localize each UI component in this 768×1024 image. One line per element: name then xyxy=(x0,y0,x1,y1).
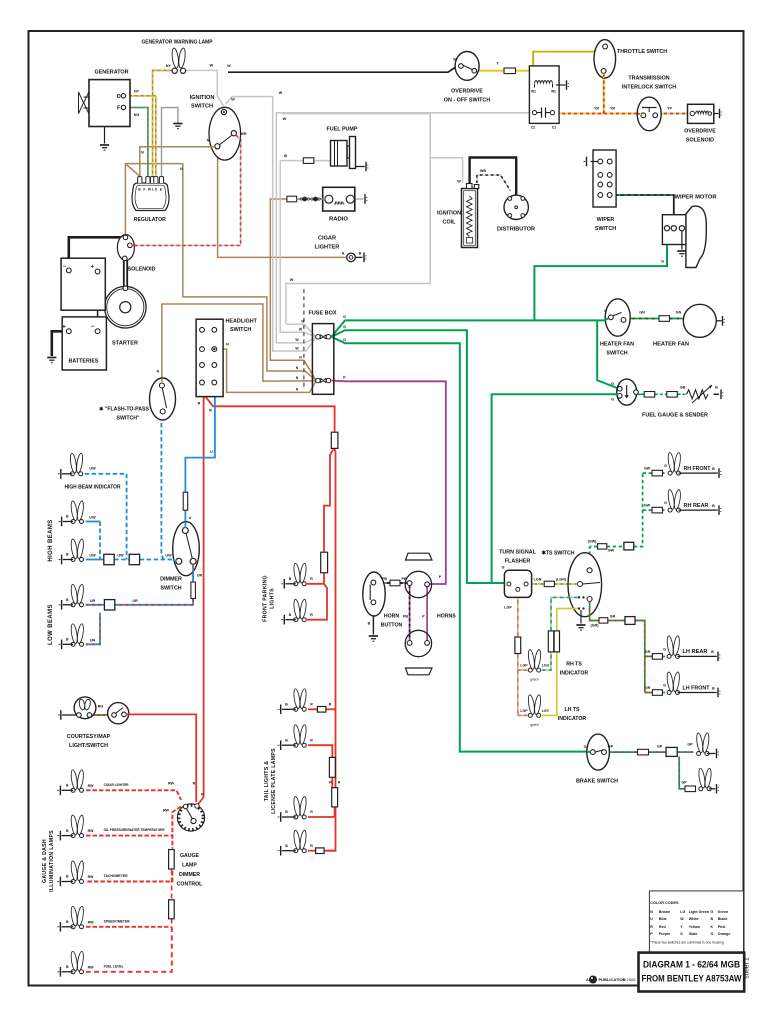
label STARTER xyxy=(112,341,138,347)
label WIPER MOTOR xyxy=(675,195,717,201)
label R R tail fuses xyxy=(329,781,341,785)
label W coil loop xyxy=(283,117,287,121)
LH rear lamp xyxy=(666,636,680,659)
wire E regulator to ground xyxy=(162,108,178,177)
label OVERDRIVE SOLENOID xyxy=(684,129,716,144)
label GW GR labels xyxy=(588,540,616,628)
label UR lb2 xyxy=(90,638,96,642)
svg-text:REGULATOR: REGULATOR xyxy=(134,217,166,223)
svg-text:GAUGE: GAUGE xyxy=(180,853,200,859)
svg-text:(GW): (GW) xyxy=(588,540,598,544)
connector heater fan xyxy=(723,316,725,326)
label HEATER FAN SWITCH xyxy=(600,342,634,357)
high beam lamp 3 xyxy=(70,539,84,562)
svg-text:G: G xyxy=(663,684,666,688)
svg-text:White: White xyxy=(689,917,699,921)
bulkhead dashed line xyxy=(303,289,305,388)
wire G branch heater line to fuel gauge xyxy=(597,320,618,388)
svg-text:R: R xyxy=(193,782,196,786)
cigar lighter top xyxy=(347,253,363,262)
label B row xyxy=(66,784,69,788)
svg-text:W: W xyxy=(210,64,214,68)
svg-text:© 2005: © 2005 xyxy=(623,977,637,982)
svg-text:PB: PB xyxy=(382,577,387,581)
label RH FRONT xyxy=(684,466,711,472)
RH rear lamp xyxy=(667,489,681,512)
svg-text:HORN: HORN xyxy=(384,614,400,620)
label NG xyxy=(134,113,140,117)
svg-text:Green: Green xyxy=(718,910,728,914)
wire B LH front xyxy=(678,688,721,698)
wire N ignition-to-cigar-lighter xyxy=(218,158,347,257)
label SOLENOID xyxy=(128,267,156,273)
wire UR low beam 2 drop xyxy=(86,613,100,645)
label W coil xyxy=(457,180,461,184)
svg-text:R: R xyxy=(198,402,201,406)
svg-text:B F WLD E: B F WLD E xyxy=(138,188,162,192)
overdrive solenoid xyxy=(688,104,719,123)
svg-text:R: R xyxy=(209,409,212,413)
fuel pump xyxy=(331,137,356,169)
label GAUGE & DASH ILLUMINATION LAMPS rotated xyxy=(42,830,55,892)
ground generator xyxy=(100,145,109,150)
wire N flash-to-pass feed xyxy=(162,304,316,382)
fuse LGN xyxy=(544,581,554,586)
label row title xyxy=(104,783,129,787)
cable battery link xyxy=(97,274,99,329)
fuse GR LH rear xyxy=(652,654,662,660)
label U headlight xyxy=(189,450,214,520)
brake switch xyxy=(587,734,610,770)
low beam lamp 2 xyxy=(70,623,84,646)
svg-text:TRANSMISSION: TRANSMISSION xyxy=(628,76,669,82)
fuse Y overdrive xyxy=(504,68,516,74)
fuse upper xyxy=(316,335,331,340)
brake lamp upper xyxy=(696,733,710,756)
svg-text:COLOR CODES: COLOR CODES xyxy=(650,901,679,905)
label B tail xyxy=(285,703,288,707)
label B tail xyxy=(285,810,288,814)
svg-text:FUEL GAUGE & SENDER: FUEL GAUGE & SENDER xyxy=(642,413,708,419)
generator warning lamp xyxy=(171,48,186,74)
wire G overlay into brake switch xyxy=(588,751,591,754)
connector wiper switch xyxy=(584,157,598,167)
label GW G B rh front xyxy=(644,464,715,471)
label RW row xyxy=(88,875,94,879)
svg-text:GR: GR xyxy=(610,615,616,619)
connector relay W2 xyxy=(556,80,569,90)
svg-text:−: − xyxy=(91,324,95,330)
label R fp1 xyxy=(310,577,313,581)
fuse U dimmer feed xyxy=(183,492,188,510)
label N headlight xyxy=(226,343,229,347)
high beam lamp 2 xyxy=(70,501,84,524)
svg-text:LIGHTS: LIGHTS xyxy=(270,588,276,609)
wire UR dimmer to low beams xyxy=(115,564,193,605)
svg-text:LGU: LGU xyxy=(542,664,550,668)
svg-text:G: G xyxy=(584,745,587,749)
svg-text:R: R xyxy=(310,577,313,581)
label row title xyxy=(104,828,165,832)
label IGNITION SWITCH xyxy=(190,95,215,110)
ground battery xyxy=(47,358,56,363)
wire PB horn1 to horn2 xyxy=(409,586,411,641)
svg-text:HEATER FAN: HEATER FAN xyxy=(653,342,689,348)
svg-text:LH REAR: LH REAR xyxy=(683,649,708,655)
label HORNS xyxy=(437,614,456,620)
svg-text:OIL PRESSURE/WATER TEMPERATURE: OIL PRESSURE/WATER TEMPERATURE xyxy=(104,828,165,832)
svg-text:GAUGE & DASH: GAUGE & DASH xyxy=(42,839,48,883)
svg-text:FLASHER: FLASHER xyxy=(505,559,531,565)
svg-text:B: B xyxy=(368,622,371,626)
svg-text:LGY: LGY xyxy=(542,709,550,713)
label B lamp xyxy=(66,598,69,602)
svg-text:HIGH BEAMS: HIGH BEAMS xyxy=(48,519,54,561)
svg-text:W: W xyxy=(283,117,287,121)
svg-text:W: W xyxy=(680,917,684,921)
wire W warning lamp to ignition switch xyxy=(185,70,224,106)
fuse LGY xyxy=(554,631,559,652)
svg-text:N: N xyxy=(180,167,183,171)
wire B horn button ground xyxy=(372,605,374,635)
wire W radio right lead xyxy=(355,198,364,200)
wire UR overlay from dimmer xyxy=(192,564,194,577)
publication credit xyxy=(586,976,636,984)
label B lamp xyxy=(289,577,292,581)
label LGP xyxy=(504,606,512,610)
svg-text:GENERATOR: GENERATOR xyxy=(95,70,129,76)
svg-text:C2: C2 xyxy=(531,126,535,130)
svg-text:YR: YR xyxy=(594,107,599,111)
svg-text:GP: GP xyxy=(608,745,614,749)
svg-text:FUEL LEVEL: FUEL LEVEL xyxy=(104,964,125,968)
label BRAKE SWITCH xyxy=(576,779,618,785)
tail lamp row xyxy=(293,688,307,711)
wire W overdrive relay C2 feed xyxy=(276,113,529,343)
svg-text:sheet 1: sheet 1 xyxy=(744,957,751,979)
fuse GB 1 xyxy=(644,392,655,398)
wire GW TS switch to RH lamps xyxy=(590,473,643,567)
svg-text:UW: UW xyxy=(89,554,96,558)
svg-text:W: W xyxy=(279,91,283,95)
illumination lamp row xyxy=(70,861,84,884)
label B row xyxy=(66,829,69,833)
svg-text:W: W xyxy=(290,278,294,282)
connector lamp xyxy=(59,640,74,650)
label R headlight xyxy=(198,402,213,413)
label W lamp xyxy=(210,64,214,68)
fuse GR xyxy=(599,618,608,623)
svg-text:green: green xyxy=(530,723,539,727)
svg-text:GP: GP xyxy=(657,745,663,749)
svg-text:RW: RW xyxy=(88,965,94,969)
svg-text:N: N xyxy=(650,910,653,914)
label LH REAR xyxy=(683,649,708,655)
label row title xyxy=(104,919,130,923)
svg-text:SWITCH: SWITCH xyxy=(595,226,616,232)
label W ignition acc xyxy=(231,98,235,102)
connector tail row xyxy=(278,812,296,822)
svg-text:GN: GN xyxy=(639,311,645,315)
svg-text:O: O xyxy=(711,932,714,936)
fuse lower xyxy=(316,378,331,383)
svg-text:N: N xyxy=(342,251,345,255)
wire R tail row4 xyxy=(308,850,336,852)
svg-text:SOLENOID: SOLENOID xyxy=(128,267,156,273)
wire YP interlock to OD solenoid xyxy=(658,113,689,115)
svg-text:C1: C1 xyxy=(552,126,556,130)
label GENERATOR WARNING LAMP xyxy=(142,40,213,46)
wire UR low beam 1 xyxy=(86,604,105,606)
svg-text:(GR): (GR) xyxy=(591,624,600,628)
wire HT coil to distributor xyxy=(470,158,517,204)
label YR labels xyxy=(594,107,615,111)
svg-text:D: D xyxy=(117,94,121,100)
fuse R parking xyxy=(321,552,328,573)
wire UW flash-to-pass drop xyxy=(161,416,163,560)
svg-text:G: G xyxy=(502,566,505,570)
flash-to-pass switch xyxy=(150,378,176,420)
wire GB fuel gauge to sender xyxy=(638,393,719,395)
ground TS switch xyxy=(576,625,585,630)
fuse GP lower xyxy=(685,786,696,792)
label UW hb3 xyxy=(89,554,172,558)
wire R front parking branch xyxy=(307,449,334,620)
wire GN heater switch to heater fan xyxy=(626,318,684,320)
svg-text:SWITCH: SWITCH xyxy=(230,327,251,333)
svg-text:RH FRONT: RH FRONT xyxy=(684,466,711,472)
wire GP lower brake lamp xyxy=(679,757,696,789)
label UR lb1 xyxy=(90,599,138,603)
label LGP LGU rh xyxy=(520,664,549,682)
connector GW xyxy=(624,542,634,550)
svg-text:GW: GW xyxy=(644,467,651,471)
wire UW high beam 2 drop xyxy=(86,522,100,560)
connector sender xyxy=(721,390,723,400)
courtesy map light xyxy=(74,697,96,719)
label G GP brake xyxy=(584,743,694,785)
wire RW fuel level row xyxy=(86,927,172,972)
label DISTRIBUTOR xyxy=(497,227,535,233)
svg-text:G: G xyxy=(711,910,714,914)
svg-text:R: R xyxy=(201,793,204,797)
svg-text:GW: GW xyxy=(608,549,615,553)
label DIMMER SWITCH xyxy=(160,577,182,592)
fuse RW lower xyxy=(169,900,175,919)
label FUEL PUMP xyxy=(327,127,358,133)
starter xyxy=(105,286,147,328)
label COURTESY/MAP LIGHT/SWITCH xyxy=(67,734,111,749)
label R tail xyxy=(310,810,313,814)
connector lamp xyxy=(281,615,296,625)
wire B LH rear xyxy=(678,652,721,662)
label NY xyxy=(134,89,140,93)
svg-text:SWITCH": SWITCH" xyxy=(117,416,140,422)
label CIGAR LIGHTER xyxy=(315,236,340,251)
fuse UR xyxy=(191,582,196,599)
fuse N radio xyxy=(287,196,297,202)
wire GR overlay from TS switch bottom xyxy=(589,602,591,618)
connector square UW1 xyxy=(104,554,114,564)
fuse LGU xyxy=(548,631,553,652)
dots TS switch overlay xyxy=(578,596,585,609)
cable solenoid to starter xyxy=(124,259,127,287)
horn 1 xyxy=(405,553,432,598)
label GR G B lh front xyxy=(645,684,715,691)
wire LGU overlay into TS switch dots xyxy=(567,596,578,598)
svg-text:GR: GR xyxy=(645,686,651,690)
wire UW overlay into dimmer xyxy=(173,559,176,562)
illumination lamp row xyxy=(70,951,84,974)
svg-text:IGNITION: IGNITION xyxy=(190,95,215,101)
wire B RH front xyxy=(679,468,722,478)
wire YR overlay into throttle switch xyxy=(603,74,605,79)
wire WB coil to distributor xyxy=(477,175,510,191)
svg-text:N: N xyxy=(226,343,229,347)
wire GP brake switch to lamps xyxy=(608,751,694,753)
label GENERATOR xyxy=(95,70,129,76)
wire U headlight switch to dimmer xyxy=(185,385,215,528)
label W overdrive feed xyxy=(227,64,231,68)
svg-text:GB: GB xyxy=(680,386,686,390)
label W od switch xyxy=(453,58,457,62)
illumination lamp row xyxy=(70,906,84,929)
wire LGN flasher to TS switch xyxy=(529,583,578,585)
svg-text:RW: RW xyxy=(88,875,94,879)
connector square UR xyxy=(104,600,114,610)
svg-text:LAMP: LAMP xyxy=(182,863,197,869)
fuse LGP xyxy=(515,637,521,654)
label PB labels xyxy=(382,575,442,619)
connector tail row xyxy=(278,705,296,715)
label YP xyxy=(667,107,672,111)
solenoid xyxy=(117,235,134,261)
wire LGY overlay into TS switch dots xyxy=(567,608,578,610)
wire LGP RH TS branch xyxy=(518,669,528,671)
svg-text:IGNITION: IGNITION xyxy=(437,211,461,217)
svg-text:ON - OFF SWITCH: ON - OFF SWITCH xyxy=(444,98,491,104)
label B sender xyxy=(715,386,718,390)
svg-text:LICENSE PLATE LAMPS: LICENSE PLATE LAMPS xyxy=(271,748,277,814)
label WB xyxy=(480,169,486,173)
wire WR overlay into solenoid xyxy=(132,244,135,246)
svg-text:FRONT PARKING: FRONT PARKING xyxy=(263,575,269,622)
label HIGH BEAM INDICATOR xyxy=(65,485,121,491)
svg-text:G: G xyxy=(664,464,667,468)
svg-text:RW: RW xyxy=(88,920,94,924)
svg-text:RW: RW xyxy=(88,829,94,833)
wire N radio feed xyxy=(270,199,316,380)
label HIGH BEAMS rotated xyxy=(48,519,54,561)
connector high beam indicator xyxy=(58,469,73,479)
wire R tail row2 chain xyxy=(308,745,335,817)
resistor fuel sender xyxy=(687,385,713,403)
svg-text:TAIL LIGHTS &: TAIL LIGHTS & xyxy=(264,761,270,802)
label HORN BUTTON xyxy=(381,614,403,629)
connector tail row xyxy=(278,846,296,856)
svg-text:UR: UR xyxy=(90,599,96,603)
svg-text:RW: RW xyxy=(163,809,170,813)
wire GR LH front row xyxy=(645,692,665,694)
fuse R tail B xyxy=(332,788,338,807)
title block xyxy=(639,953,745,992)
connector radio right xyxy=(365,194,367,204)
wire NY generator D to regulator xyxy=(126,96,156,177)
svg-text:U: U xyxy=(210,450,213,454)
svg-text:G: G xyxy=(664,501,667,505)
label G heater xyxy=(604,309,607,313)
label UW hb2 xyxy=(89,516,96,520)
label B row xyxy=(66,965,69,969)
svg-text:DISTRIBUTOR: DISTRIBUTOR xyxy=(497,227,535,233)
wire U overlay into dimmer top xyxy=(184,522,186,528)
svg-text:SWITCH: SWITCH xyxy=(606,351,627,357)
wire W ignition coil loop xyxy=(282,114,463,337)
svg-text:R: R xyxy=(310,613,313,617)
svg-text:ILLUMINATION LAMPS: ILLUMINATION LAMPS xyxy=(49,830,55,892)
svg-text:GENERATOR WARNING LAMP: GENERATOR WARNING LAMP xyxy=(142,40,213,46)
radio xyxy=(323,187,355,211)
connector row xyxy=(57,922,73,932)
wire WR ignition to solenoid xyxy=(132,134,240,245)
label WIPER SWITCH xyxy=(595,217,616,232)
svg-text:LG: LG xyxy=(680,910,685,914)
wire LGU RH TS to switch xyxy=(542,597,578,670)
label G flasher xyxy=(502,566,505,570)
svg-text:SWITCH: SWITCH xyxy=(191,104,213,110)
ignition coil xyxy=(462,184,479,248)
heater fan switch xyxy=(605,299,630,336)
wire GR TS switch to LH lamps xyxy=(590,602,645,693)
front parking lamp 1 xyxy=(293,563,307,586)
svg-text:LIGHT/SWITCH: LIGHT/SWITCH xyxy=(69,743,108,749)
wire R tail row1 xyxy=(308,708,336,710)
wire GR LH rear row xyxy=(645,655,665,657)
label UR dimmer xyxy=(197,574,203,578)
label RW row xyxy=(88,829,94,833)
heater fan xyxy=(683,304,721,337)
wiper motor xyxy=(662,206,706,267)
svg-text:UW: UW xyxy=(117,554,124,558)
label W ignition feed xyxy=(279,91,283,95)
svg-text:YR: YR xyxy=(610,107,615,111)
label TAIL LIGHTS & LICENSE PLATE LAMPS rotated xyxy=(264,748,277,814)
svg-text:*These two switches are combin: *These two switches are combined in one … xyxy=(650,941,723,945)
label row title xyxy=(104,874,128,878)
svg-text:OVERDRIVE: OVERDRIVE xyxy=(684,129,716,135)
label W fuel pump xyxy=(284,154,288,158)
label RH TS INDICATOR xyxy=(560,662,589,677)
label RH REAR xyxy=(684,503,709,509)
connector cigar lighter xyxy=(364,253,366,263)
label N ignition xyxy=(207,139,210,143)
label G gauge xyxy=(611,382,614,402)
brake lamp lower xyxy=(698,768,712,791)
svg-text:RADIO: RADIO xyxy=(329,217,349,223)
wire R main courtesy vertical xyxy=(198,392,204,805)
label RW row xyxy=(88,920,94,924)
svg-text:TACHOMETER: TACHOMETER xyxy=(104,874,128,878)
svg-text:INDICATOR: INDICATOR xyxy=(560,671,589,677)
svg-text:G: G xyxy=(343,325,346,329)
svg-text:LGP: LGP xyxy=(520,664,528,668)
wire NG generator F to regulator xyxy=(126,108,148,177)
svg-text:RW: RW xyxy=(88,784,94,788)
wire G fusebox to heater fan switch (G1) xyxy=(332,320,605,336)
ignition switch xyxy=(209,107,241,160)
svg-text:FUEL PUMP: FUEL PUMP xyxy=(327,127,358,133)
fuse W fuel pump xyxy=(303,158,314,164)
